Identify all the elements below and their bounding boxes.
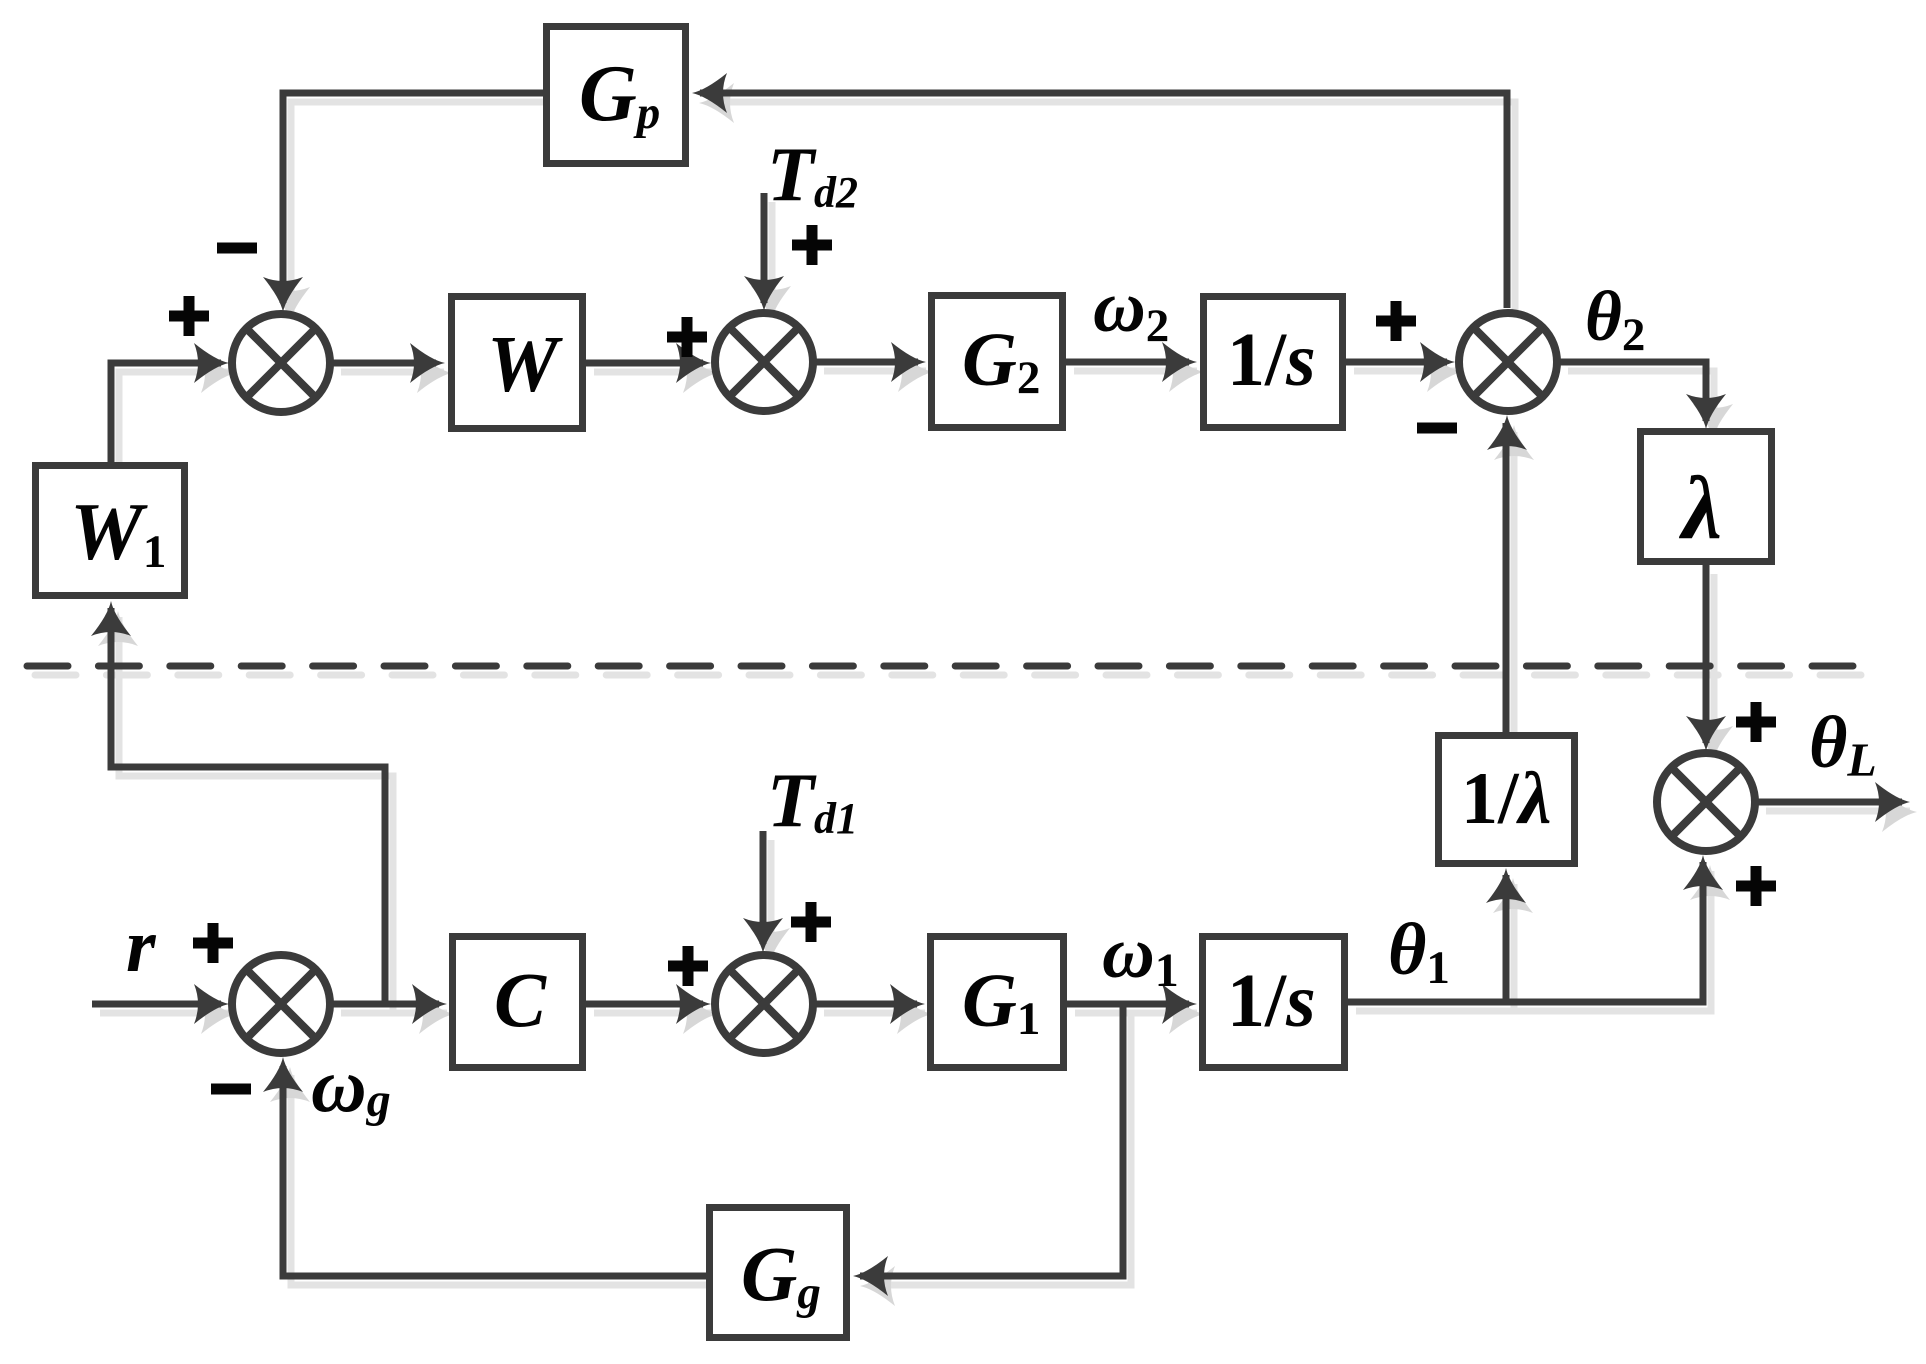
svg-text:r: r [126,904,157,988]
svg-text:W: W [487,321,563,409]
svg-text:1/s: 1/s [1227,959,1316,1043]
svg-text:1/λ: 1/λ [1461,758,1551,840]
svg-text:λ: λ [1678,459,1722,558]
svg-text:1/s: 1/s [1227,318,1316,402]
svg-text:C: C [494,956,547,1043]
